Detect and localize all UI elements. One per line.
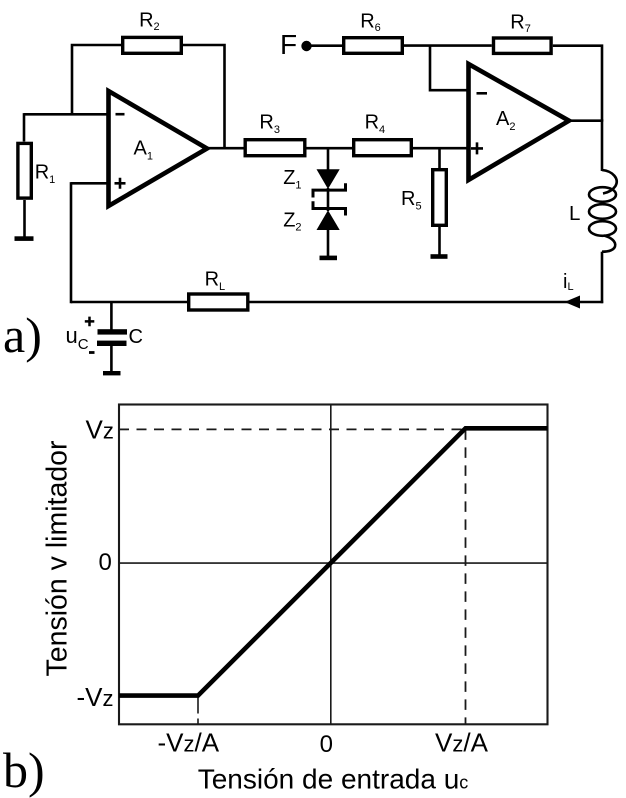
label Vz — [86, 414, 114, 444]
label x axis Tension de entrada uc — [198, 763, 469, 794]
svg-text:F: F — [280, 29, 297, 60]
wire inductor top — [601, 120, 604, 172]
label uC — [66, 323, 89, 353]
label iL — [563, 271, 574, 293]
svg-text:a): a) — [3, 307, 42, 363]
label Z2 — [283, 209, 301, 233]
label F — [280, 29, 297, 60]
svg-text:R6: R6 — [360, 11, 381, 35]
label Vz/A — [435, 728, 489, 758]
resistor R3 — [245, 140, 305, 156]
plus sign A1 — [115, 178, 126, 189]
wire junction to A2 minus — [430, 46, 469, 91]
wire R1 bottom — [23, 200, 26, 237]
resistor R2 — [123, 37, 182, 53]
ground zener — [320, 256, 338, 261]
label y axis Tension v limitador — [42, 440, 74, 677]
graph transfer curve — [119, 428, 548, 695]
svg-text:iL: iL — [563, 271, 574, 293]
op-amp A2 — [469, 64, 570, 180]
minus sign A2 — [477, 92, 488, 95]
label RL — [205, 268, 226, 293]
label C — [129, 326, 143, 348]
resistor R7 — [494, 38, 552, 53]
resistor R6 — [344, 38, 403, 54]
capacitor C plate top — [98, 329, 128, 334]
graph dashed Vz horizontal — [119, 428, 466, 430]
svg-text:-Vz: -Vz — [77, 682, 114, 712]
ground capacitor — [103, 371, 121, 375]
graph tick -Vz/A — [197, 698, 199, 725]
label A2 — [496, 108, 515, 133]
svg-text:0: 0 — [99, 549, 112, 576]
wire A2 output — [569, 119, 603, 122]
svg-text:Tensión de entrada uc: Tensión de entrada uc — [198, 763, 469, 794]
wire R2 left — [72, 45, 121, 114]
label -Vz/A — [158, 728, 220, 758]
label R3 — [259, 112, 280, 136]
label R1 — [35, 162, 56, 187]
label R5 — [401, 188, 422, 212]
svg-text:R1: R1 — [35, 162, 56, 187]
graph zero horizontal axis — [119, 562, 548, 564]
wire inductor bottom — [601, 252, 604, 304]
wire minus input A1 — [24, 113, 109, 116]
resistor RL — [189, 294, 248, 310]
capacitor C plate bottom — [97, 341, 127, 346]
svg-text:-Vz/A: -Vz/A — [158, 728, 220, 758]
plus sign capacitor — [85, 317, 95, 327]
ground R1 — [15, 236, 34, 241]
wire R4 to A2 — [413, 147, 469, 150]
zener Z1 bar — [313, 183, 346, 197]
label R2 — [139, 10, 160, 34]
wire zener top — [327, 148, 330, 170]
wire R1 top — [23, 113, 26, 141]
wire R3 to R4 — [307, 147, 353, 150]
svg-text:Tensión v limitador: Tensión v limitador — [42, 440, 74, 677]
wire bottom left — [71, 301, 187, 304]
wire bottom right — [250, 301, 604, 304]
wire zener middle — [327, 188, 330, 211]
label Z1 — [283, 167, 301, 191]
svg-text:Z2: Z2 — [283, 209, 301, 233]
wire zener bottom — [327, 230, 330, 256]
graph zero vertical axis — [330, 405, 332, 725]
label R7 — [510, 12, 531, 36]
wire R2 right — [183, 45, 225, 149]
wire A1 output — [207, 147, 244, 150]
wire left vertical — [70, 182, 73, 303]
resistor R4 — [354, 140, 412, 156]
label A1 — [134, 138, 153, 163]
minus sign A1 — [116, 113, 125, 116]
wire R5 bottom — [438, 227, 441, 255]
arrow iL — [565, 296, 581, 309]
svg-text:0: 0 — [320, 731, 333, 758]
svg-text:R2: R2 — [139, 10, 160, 34]
resistor R5 — [433, 170, 447, 226]
svg-text:R3: R3 — [259, 112, 280, 136]
zener Z1 — [317, 169, 340, 189]
label L — [569, 202, 580, 225]
label R4 — [365, 112, 386, 136]
wire plus input A1 — [71, 182, 109, 185]
label 0 y-axis — [99, 549, 112, 576]
label R6 — [360, 11, 381, 35]
label 0 x-axis — [320, 731, 333, 758]
svg-text:C: C — [129, 326, 143, 348]
resistor R1 — [18, 143, 31, 198]
ground R5 — [431, 254, 448, 259]
svg-text:R5: R5 — [401, 188, 422, 212]
inductor L — [589, 170, 617, 252]
label -Vz — [77, 682, 114, 712]
zener Z2 — [317, 210, 340, 230]
wire R6 to R7 — [404, 44, 492, 47]
node F dot — [301, 41, 311, 51]
svg-text:uC: uC — [66, 323, 89, 353]
graph border — [119, 405, 548, 725]
svg-text:Z1: Z1 — [283, 167, 301, 191]
label b) — [3, 742, 45, 798]
wire capacitor bottom — [110, 346, 113, 372]
zener Z2 bar — [313, 201, 346, 215]
graph dashed Vz/A vertical — [465, 429, 467, 724]
wire R5 top — [438, 148, 441, 168]
svg-text:R4: R4 — [365, 112, 386, 136]
plus sign A2 — [471, 142, 483, 154]
wire F to R6 — [311, 44, 342, 47]
svg-text:Vz/A: Vz/A — [435, 728, 489, 758]
wire capacitor top — [110, 302, 113, 330]
op-amp A1 — [109, 91, 208, 206]
wire R7 right — [553, 46, 602, 121]
label a) — [3, 307, 42, 363]
svg-text:R7: R7 — [510, 12, 531, 36]
svg-text:RL: RL — [205, 268, 226, 293]
svg-text:b): b) — [3, 742, 45, 798]
svg-text:L: L — [569, 202, 580, 225]
minus sign capacitor — [89, 351, 95, 354]
svg-text:Vz: Vz — [86, 414, 114, 444]
